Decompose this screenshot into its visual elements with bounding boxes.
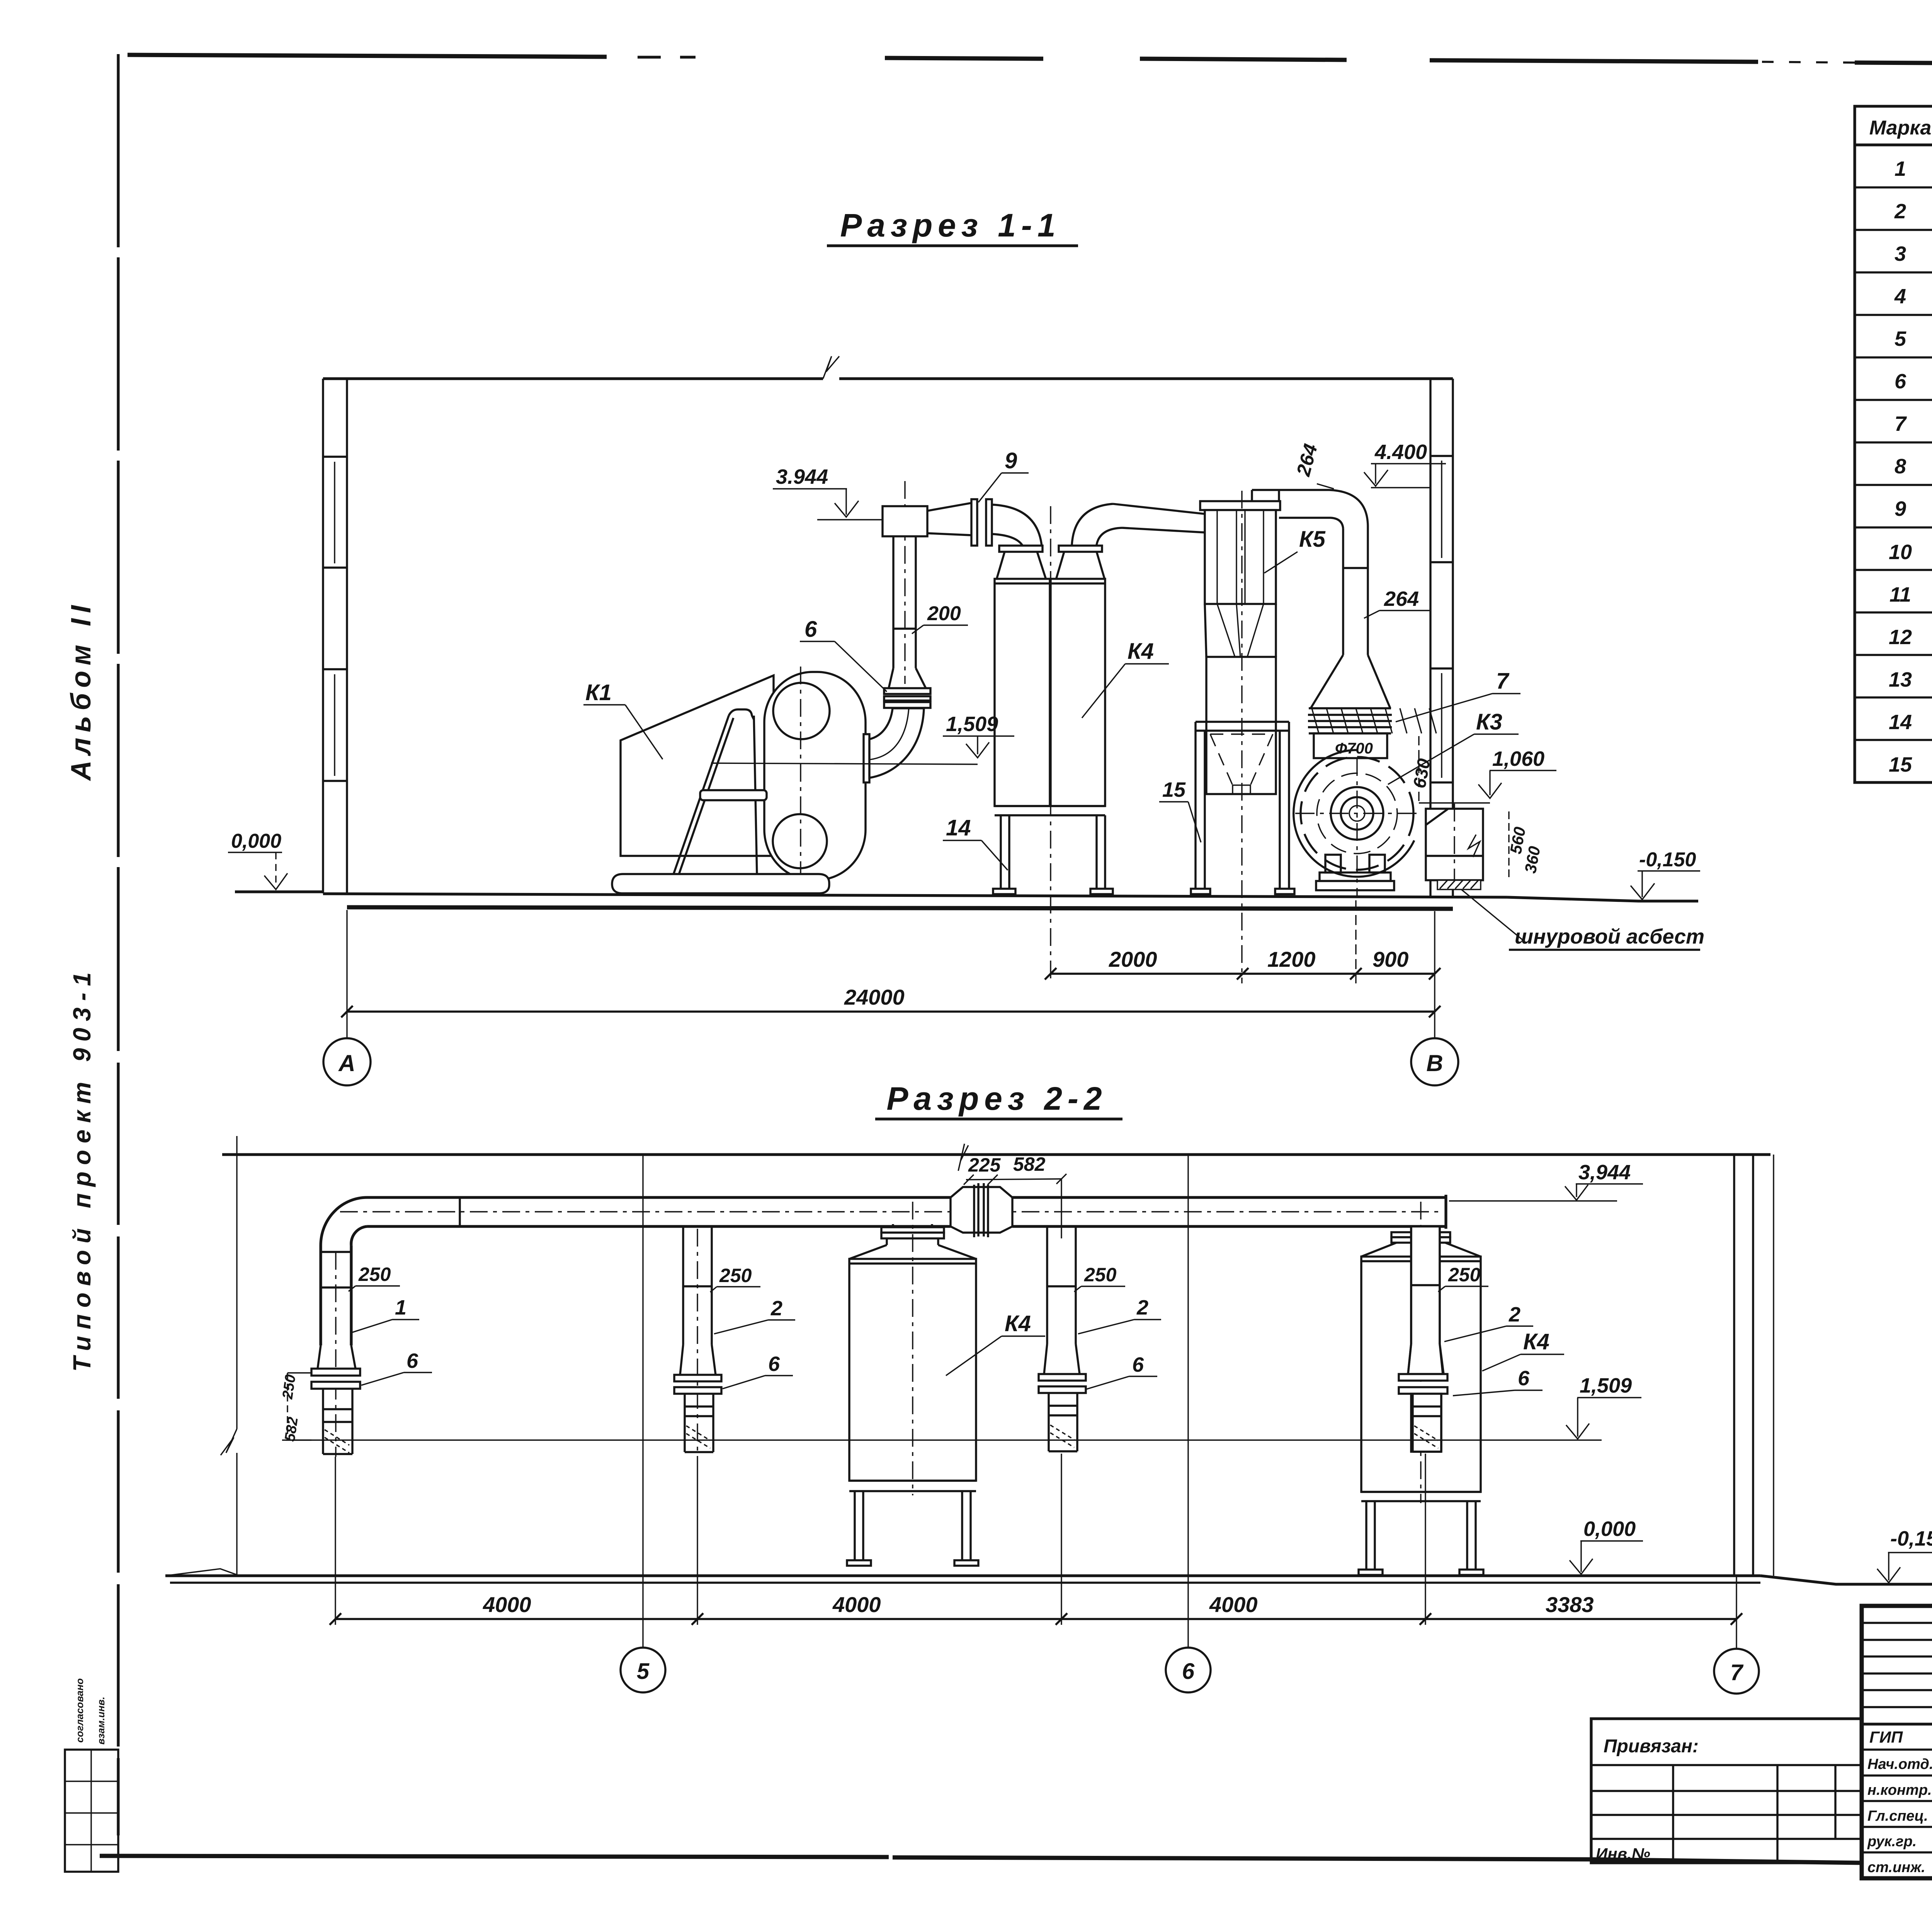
column axis line 7 <box>1736 1576 1737 1648</box>
drop 1 lower pipe <box>323 1389 352 1454</box>
label 14 <box>943 815 1008 870</box>
svg-text:шнуровой асбест: шнуровой асбест <box>1515 925 1704 948</box>
svg-text:6: 6 <box>768 1352 780 1376</box>
duct run to flanges 9 <box>927 503 971 535</box>
svg-text:1: 1 <box>1895 157 1906 180</box>
right K4 neck cone <box>1056 552 1104 578</box>
K5 cyclone lower shell <box>1206 657 1276 794</box>
riser axis <box>904 481 905 684</box>
svg-text:6: 6 <box>406 1349 418 1372</box>
svg-text:ГИП: ГИП <box>1869 1728 1903 1746</box>
inline compensator 8 <box>951 1183 1012 1237</box>
axis circle A <box>323 1038 371 1085</box>
svg-text:Инв.№: Инв.№ <box>1596 1845 1650 1863</box>
section 1-1 <box>228 207 1704 1085</box>
label 264 (duct) <box>1364 587 1430 618</box>
svg-text:10: 10 <box>1889 541 1912 564</box>
svg-text:4000: 4000 <box>483 1592 531 1617</box>
svg-text:4000: 4000 <box>1209 1592 1258 1617</box>
main horizontal flue pipe <box>340 1195 1446 1229</box>
svg-text:264: 264 <box>1384 587 1419 611</box>
boiler K1 ladder frame <box>662 709 767 895</box>
title block left mini-grid rows <box>1862 1623 1932 1724</box>
compensator 6 (bellows on riser) <box>884 688 930 708</box>
svg-text:7: 7 <box>1496 668 1510 694</box>
label 1.509 <box>711 713 1014 764</box>
svg-text:Привязан:: Привязан: <box>1604 1736 1699 1757</box>
svg-text:2: 2 <box>1509 1303 1520 1326</box>
svg-text:Типовой проект 903-1: Типовой проект 903-1 <box>68 966 96 1372</box>
fan K3 outlet suction box <box>1426 804 1483 885</box>
dims 225 582 above compensator <box>958 1144 1066 1238</box>
K4 tank 1 support <box>847 1481 978 1566</box>
svg-text:Ф700: Ф700 <box>1335 740 1373 757</box>
svg-text:рук.гр.: рук.гр. <box>1867 1833 1917 1850</box>
right end boundary <box>1773 1155 1774 1576</box>
boiler K1 body box <box>621 675 774 856</box>
svg-text:2: 2 <box>1136 1296 1148 1319</box>
note shnurovoy asbest <box>1461 889 1704 950</box>
svg-text:В: В <box>1426 1050 1443 1076</box>
level mark 0.000 left <box>228 830 287 889</box>
column axis line 6 <box>1187 1155 1189 1647</box>
svg-text:4.400: 4.400 <box>1374 440 1427 464</box>
svg-text:24000: 24000 <box>844 985 905 1009</box>
svg-text:12: 12 <box>1889 626 1912 649</box>
specification table <box>1855 73 1932 840</box>
top duct header box <box>883 506 927 536</box>
svg-text:582: 582 <box>282 1416 301 1443</box>
ground line (2-2) <box>165 1569 1932 1584</box>
dim line 24000 <box>341 910 1440 1038</box>
K4 support 14 <box>993 806 1113 894</box>
label K4 (tank 1) <box>946 1311 1045 1376</box>
svg-text:1,060: 1,060 <box>1492 747 1544 770</box>
svg-text:200: 200 <box>927 602 961 625</box>
svg-text:К1: К1 <box>585 680 612 705</box>
svg-text:5: 5 <box>637 1659 650 1684</box>
compensator 7 bellows <box>1308 708 1436 733</box>
fan inlet drum <box>1314 733 1387 758</box>
title block outer frame <box>1862 1606 1932 1878</box>
label 200 <box>912 602 968 634</box>
svg-text:3.944: 3.944 <box>776 465 828 488</box>
drop 1 riser pipe <box>321 1245 351 1457</box>
title block role labels <box>1867 1728 1932 1876</box>
elbow down into duct 264 <box>1329 490 1368 529</box>
label 9 <box>978 448 1029 502</box>
dim line 2000/1200/900 <box>1045 900 1440 983</box>
svg-text:2: 2 <box>1894 200 1906 223</box>
svg-text:15: 15 <box>1889 753 1912 776</box>
svg-text:6: 6 <box>1182 1659 1195 1684</box>
svg-text:250: 250 <box>719 1265 752 1286</box>
dim 264 rotated (top) <box>1292 442 1334 489</box>
floor slab line <box>347 907 1453 909</box>
title block signature rows <box>1862 1750 1932 1852</box>
boiler K1 upper drum <box>773 683 830 739</box>
elbow up from right K4 to K5 duct <box>1072 504 1122 545</box>
svg-text:11: 11 <box>1889 583 1911 606</box>
drop 1 side dims rotated <box>279 1373 311 1442</box>
K4 tank 1 (2-2) <box>849 1202 976 1495</box>
K5 hopper (dashed) <box>1210 734 1273 785</box>
K5 outlet riser <box>1252 490 1279 501</box>
left K4 neck cone <box>997 552 1046 578</box>
drop 2 riser (axis 1805) <box>674 1226 721 1457</box>
fan K3 casing arc <box>1294 750 1414 877</box>
spec col Марка numbers <box>1889 157 1912 776</box>
svg-text:1: 1 <box>395 1296 406 1319</box>
building right wall column <box>1430 379 1453 896</box>
fan K3 pedestal <box>1316 855 1394 890</box>
svg-text:3383: 3383 <box>1546 1592 1594 1617</box>
svg-text:Марка: Марка <box>1869 117 1932 139</box>
svg-text:4000: 4000 <box>832 1592 881 1617</box>
svg-text:К4: К4 <box>1523 1329 1549 1354</box>
drop 3 riser (axis 2747) <box>1039 1226 1086 1451</box>
asbestos cord pad (hatched) <box>1437 880 1481 889</box>
privyazan block <box>1591 1719 1862 1863</box>
flange pair 9 <box>971 499 992 546</box>
level 1.060 <box>1419 747 1556 803</box>
duct 264 vertical <box>1343 526 1368 655</box>
boiler K1 lower drum <box>773 814 827 868</box>
svg-text:Нач.отд.: Нач.отд. <box>1867 1756 1932 1772</box>
boiler K1 axis <box>800 667 801 887</box>
ceiling line <box>222 1153 1770 1156</box>
svg-text:0,000: 0,000 <box>231 830 281 852</box>
floor line 0.000 <box>235 890 323 893</box>
column axis line 5 <box>642 1155 643 1647</box>
svg-text:7: 7 <box>1895 412 1907 435</box>
duct K4 to K5 <box>1113 504 1205 532</box>
building roof line <box>323 377 823 380</box>
right K4 neck flange <box>1059 546 1102 552</box>
drop 2 labels 250 / 2 / 6 <box>710 1265 795 1389</box>
label K3 <box>1388 709 1519 784</box>
elbow down to left K4 tank <box>992 505 1042 551</box>
svg-text:9: 9 <box>1005 448 1017 473</box>
sheet frame left border <box>117 54 119 1835</box>
svg-text:8: 8 <box>1895 455 1906 478</box>
svg-text:5: 5 <box>1895 327 1906 350</box>
svg-text:А: А <box>338 1050 355 1076</box>
svg-text:13: 13 <box>1889 668 1912 691</box>
svg-text:225: 225 <box>968 1154 1001 1176</box>
axis circle 7 <box>1714 1649 1759 1694</box>
K4 tanks centerline <box>1050 506 1051 983</box>
drop 4 riser in front of tank 2 (axis 3689) <box>1399 1226 1447 1452</box>
spec header row <box>1869 114 1932 139</box>
right wall column pair <box>1734 1155 1753 1576</box>
boiler K1 outlet flange <box>864 734 869 782</box>
svg-text:К4: К4 <box>1005 1311 1031 1336</box>
boiler K1 outlet elbow to riser <box>869 708 924 778</box>
bottom-left inventory stamp (rotated) <box>65 1678 118 1872</box>
svg-text:н.контр.: н.контр. <box>1867 1782 1932 1798</box>
svg-text:6: 6 <box>1895 370 1906 393</box>
svg-text:2: 2 <box>770 1297 782 1320</box>
svg-text:3,944: 3,944 <box>1578 1161 1631 1184</box>
svg-text:250: 250 <box>279 1374 299 1401</box>
svg-text:Альбом II: Альбом II <box>66 600 97 781</box>
K5 cyclone taper section <box>1205 604 1276 657</box>
svg-text:2000: 2000 <box>1109 947 1157 971</box>
svg-text:К5: К5 <box>1299 527 1326 552</box>
K5 support 15 <box>1191 722 1294 894</box>
label 7 <box>1396 668 1520 722</box>
fan K3 scroll (dashed circle) <box>1301 757 1413 870</box>
svg-text:Разрез 1-1: Разрез 1-1 <box>840 207 1061 243</box>
svg-text:К4: К4 <box>1128 639 1154 664</box>
svg-text:15: 15 <box>1162 778 1186 801</box>
fan K3 inner circles <box>1317 773 1397 854</box>
svg-text:1,509: 1,509 <box>946 713 998 736</box>
svg-text:6: 6 <box>1518 1367 1530 1390</box>
axis circle 6 <box>1166 1648 1211 1692</box>
svg-text:6: 6 <box>1132 1353 1144 1376</box>
drop 4 labels 250 / 2 / К4 / 6 <box>1438 1264 1564 1396</box>
svg-text:250: 250 <box>1084 1264 1117 1286</box>
level 4.400 <box>1364 440 1446 488</box>
dim 630 rotated <box>1409 736 1434 802</box>
svg-text:582: 582 <box>1013 1153 1046 1175</box>
spec table grid <box>1855 106 1932 782</box>
label 15 <box>1159 778 1201 842</box>
drop 1 labels 250 / 1 / 6 <box>349 1264 432 1385</box>
title block <box>1862 1606 1932 1878</box>
svg-text:14: 14 <box>1889 711 1912 734</box>
K5 cyclone upper box <box>1205 510 1276 604</box>
K4 tank 2 (2-2) <box>1361 1202 1481 1503</box>
dim line 4000/4000/4000/3383 <box>330 1454 1742 1625</box>
svg-text:4: 4 <box>1894 285 1906 308</box>
svg-text:ст.инж.: ст.инж. <box>1867 1859 1925 1876</box>
dim 560-360 rotated <box>1507 811 1544 881</box>
svg-text:0,000: 0,000 <box>1583 1517 1636 1541</box>
svg-text:взам.инв.: взам.инв. <box>95 1697 107 1745</box>
drop 1 taper <box>318 1345 355 1369</box>
building left wall column <box>323 379 347 893</box>
svg-text:Разрез 2-2: Разрез 2-2 <box>886 1080 1107 1117</box>
svg-text:3: 3 <box>1895 242 1906 265</box>
left K4 neck flange <box>999 546 1043 552</box>
svg-text:900: 900 <box>1372 947 1408 971</box>
riser duct 200 <box>889 536 926 688</box>
svg-text:К3: К3 <box>1476 709 1502 735</box>
level 1.509 (2-2) <box>286 1374 1641 1440</box>
svg-text:14: 14 <box>946 815 971 840</box>
svg-text:6: 6 <box>804 617 817 642</box>
transition to fan inlet <box>1311 655 1390 708</box>
top duct K5 to stack elbow <box>1252 490 1331 518</box>
K4 tank 2 support <box>1359 1492 1483 1575</box>
svg-text:-0,150: -0,150 <box>1639 849 1696 871</box>
svg-text:1200: 1200 <box>1267 947 1316 971</box>
boiler K1 skid base <box>612 874 829 893</box>
svg-text:-0,150: -0,150 <box>1890 1527 1932 1550</box>
svg-text:9: 9 <box>1895 497 1906 520</box>
svg-text:250: 250 <box>358 1264 391 1285</box>
K5 axis <box>1241 491 1242 983</box>
svg-text:7: 7 <box>1730 1660 1744 1685</box>
level 0.000 (2-2) <box>1570 1517 1643 1574</box>
section 2-2 <box>165 1080 1932 1694</box>
level -0.150 (2-2) <box>1877 1527 1932 1583</box>
sheet frame top border <box>128 55 1932 67</box>
level 3.944 <box>773 465 883 520</box>
left cut boundary <box>221 1136 237 1576</box>
K5 cyclone top plate <box>1200 501 1280 510</box>
svg-text:1,509: 1,509 <box>1580 1374 1632 1397</box>
axis circle 5 <box>621 1648 665 1692</box>
svg-text:согласовано: согласовано <box>74 1678 85 1743</box>
K4 air heater tanks <box>995 579 1105 806</box>
label K1 <box>583 680 663 759</box>
svg-text:Гл.спец.: Гл.спец. <box>1867 1808 1928 1824</box>
svg-text:250: 250 <box>1448 1264 1481 1286</box>
sheet frame bottom border <box>100 1856 1862 1863</box>
label K5 <box>1264 527 1326 573</box>
label 6 <box>800 617 887 692</box>
drop 1 compensator 6 <box>311 1369 360 1389</box>
label K4 <box>1082 639 1169 718</box>
axis circle B <box>1411 1038 1458 1085</box>
level 3.944 (2-2) <box>1449 1161 1643 1201</box>
drop 3 labels 250 / 2 / 6 <box>1074 1264 1161 1389</box>
boiler K1 drum capsule <box>764 672 866 880</box>
level mark -0.150 right <box>1631 849 1700 900</box>
left elbow of flue 1 <box>321 1197 367 1245</box>
